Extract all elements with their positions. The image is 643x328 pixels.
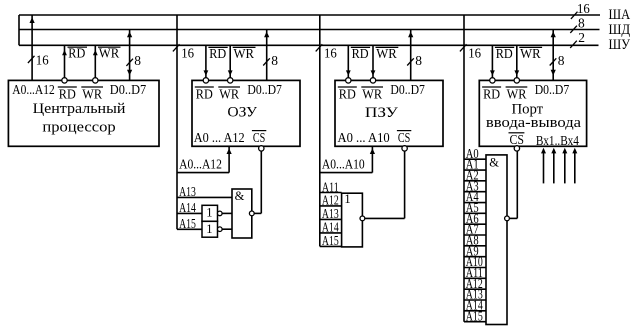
svg-text:RD: RD <box>196 86 213 101</box>
svg-text:WR: WR <box>520 46 541 61</box>
svg-text:D0..D7: D0..D7 <box>535 82 570 97</box>
svg-text:RD: RD <box>68 46 85 61</box>
svg-text:A0...A10: A0...A10 <box>322 157 365 172</box>
svg-text:8: 8 <box>271 53 278 68</box>
svg-text:1: 1 <box>344 192 350 206</box>
svg-text:ОЗУ: ОЗУ <box>227 105 257 121</box>
svg-text:процессор: процессор <box>42 120 115 136</box>
svg-text:A0...A12: A0...A12 <box>179 157 222 172</box>
svg-text:A0...A12: A0...A12 <box>12 82 54 97</box>
svg-text:A15: A15 <box>322 233 339 248</box>
svg-text:D0..D7: D0..D7 <box>247 82 282 97</box>
svg-text:ШД: ШД <box>609 22 631 38</box>
svg-text:ввода-вывода: ввода-вывода <box>486 115 581 131</box>
svg-text:1: 1 <box>206 206 212 220</box>
svg-text:D0..D7: D0..D7 <box>390 82 425 97</box>
svg-text:Вх1..Вх4: Вх1..Вх4 <box>536 133 579 148</box>
svg-text:A13: A13 <box>179 184 196 199</box>
svg-text:CS: CS <box>398 130 410 145</box>
svg-text:WR: WR <box>234 46 255 61</box>
svg-text:&: & <box>489 155 499 169</box>
svg-text:WR: WR <box>362 86 382 101</box>
svg-text:WR: WR <box>82 86 102 101</box>
svg-text:8: 8 <box>134 53 141 68</box>
svg-text:RD: RD <box>496 46 513 61</box>
svg-text:A0 ... A10: A0 ... A10 <box>338 130 390 145</box>
svg-text:1: 1 <box>206 222 212 236</box>
svg-text:16: 16 <box>181 46 194 61</box>
svg-text:WR: WR <box>376 46 397 61</box>
svg-text:A14: A14 <box>179 200 196 215</box>
svg-text:8: 8 <box>578 16 585 31</box>
svg-text:A15: A15 <box>179 216 196 231</box>
svg-text:WR: WR <box>219 86 239 101</box>
svg-text:CS: CS <box>253 130 265 145</box>
svg-text:D0..D7: D0..D7 <box>110 82 147 97</box>
svg-text:RD: RD <box>483 86 500 101</box>
svg-text:ШУ: ШУ <box>609 37 631 53</box>
svg-text:8: 8 <box>415 53 422 68</box>
svg-text:16: 16 <box>577 1 590 16</box>
svg-text:ША: ША <box>609 7 631 23</box>
svg-text:CS: CS <box>510 132 525 147</box>
svg-text:WR: WR <box>99 46 120 61</box>
svg-text:2: 2 <box>578 30 585 45</box>
svg-text:&: & <box>235 189 245 203</box>
svg-text:RD: RD <box>59 86 76 101</box>
svg-text:RD: RD <box>339 86 356 101</box>
svg-text:16: 16 <box>36 53 49 68</box>
svg-text:A0 ... A12: A0 ... A12 <box>194 130 245 145</box>
svg-text:16: 16 <box>324 46 337 61</box>
svg-text:Центральный: Центральный <box>33 101 126 117</box>
svg-text:RD: RD <box>352 46 369 61</box>
svg-text:A15: A15 <box>466 308 483 323</box>
svg-text:8: 8 <box>558 53 565 68</box>
svg-text:ПЗУ: ПЗУ <box>365 105 398 121</box>
svg-text:16: 16 <box>468 46 481 61</box>
svg-text:WR: WR <box>507 86 527 101</box>
svg-text:RD: RD <box>209 46 226 61</box>
